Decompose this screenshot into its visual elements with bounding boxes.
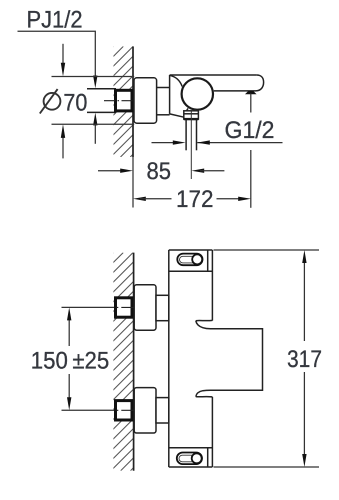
svg-text:70: 70 bbox=[63, 89, 87, 116]
svg-text:G1/2: G1/2 bbox=[225, 117, 275, 144]
svg-text:PJ1/2: PJ1/2 bbox=[27, 7, 83, 34]
svg-text:85: 85 bbox=[147, 158, 172, 185]
svg-text:150 ±25: 150 ±25 bbox=[31, 347, 110, 374]
svg-text:172: 172 bbox=[176, 186, 214, 213]
svg-text:317: 317 bbox=[287, 346, 322, 373]
